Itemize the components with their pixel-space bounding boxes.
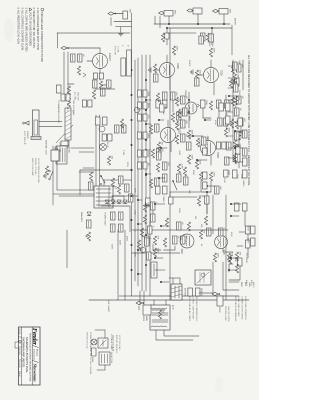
coupling capacitor C3 .047 — [224, 100, 229, 108]
input bus wire B — [167, 27, 232, 29]
bass pot P2 250K — [162, 100, 167, 108]
filter capacitor C24 70MFD — [118, 212, 123, 220]
svg-text:PILOT: PILOT — [106, 142, 108, 148]
top strip wire — [232, 60, 234, 162]
bus wire y113 — [145, 55, 147, 291]
volume pot P3 1MEG — [242, 170, 247, 178]
wire bus to V3 — [166, 28, 168, 45]
res R67 — [196, 138, 199, 147]
svg-text:215V: 215V — [126, 162, 128, 167]
J5 gnd wire — [120, 27, 122, 33]
svg-text:1M: 1M — [225, 112, 227, 115]
res R57 — [149, 179, 152, 188]
svg-text:BASS: BASS — [147, 103, 150, 109]
wire stage to PI — [206, 192, 208, 214]
tube V3 7025 vibrato — [160, 63, 175, 78]
svg-text:(0 TO 150 V A.C.: (0 TO 150 V A.C. — [118, 335, 121, 351]
svg-text:GND SW: GND SW — [77, 92, 79, 100]
speed pot P6 — [195, 288, 200, 296]
cap CV5 — [176, 174, 181, 182]
footswitch assembly box — [33, 110, 40, 138]
jack S2 arrow — [136, 301, 142, 304]
svg-text:SPEED: SPEED — [200, 288, 202, 296]
footswitch inner box — [34, 120, 38, 135]
resistor R5 68K — [123, 11, 128, 19]
standby capacitor C28 — [118, 176, 123, 184]
capacitor C8 — [226, 142, 231, 150]
capacitor C5 coupling — [238, 118, 243, 126]
svg-text:6800: 6800 — [147, 203, 149, 209]
paper smudge 1 — [4, 18, 14, 42]
export wires — [104, 330, 106, 338]
bottom rect B1 — [66, 94, 70, 101]
capacitor C7 — [217, 118, 222, 126]
B+ wire H1 — [124, 230, 126, 300]
ground V1 cathode — [192, 70, 194, 75]
pot PS3 — [225, 116, 230, 124]
res R65 — [235, 144, 238, 153]
AC plug body — [51, 150, 59, 161]
capacitor C17 — [183, 177, 188, 185]
wire x170 long — [95, 169, 132, 171]
logo slash 1 — [33, 346, 39, 348]
AC cord wires — [56, 161, 58, 190]
resistor R38 — [99, 81, 102, 90]
cap box PC1 — [108, 134, 112, 141]
B+ wire H2 — [117, 230, 119, 300]
svg-text:Showman: Showman — [33, 364, 38, 383]
cap C41 — [144, 236, 149, 244]
res R56 — [151, 149, 154, 158]
svg-text:250K: 250K — [205, 100, 207, 106]
pot PS2 — [219, 103, 224, 111]
plate wire upper — [247, 234, 249, 240]
cap C44 — [242, 130, 247, 138]
copyright circle — [19, 341, 22, 344]
PI long wire B — [132, 229, 228, 231]
res R43 — [89, 172, 92, 181]
resistor R28 100K — [213, 253, 216, 262]
capacitor C11 cathode — [153, 74, 158, 82]
resistor R8 1500 cathode — [195, 70, 198, 79]
choke coil CH2 — [56, 146, 67, 164]
vertical connector wires band — [229, 95, 237, 97]
capacitor C34 — [92, 80, 97, 88]
res RV1 — [175, 97, 178, 106]
resistor R25 — [197, 197, 200, 206]
svg-text:3. ALL CAPS IN MFD UNLESS NOTE: 3. ALL CAPS IN MFD UNLESS NOTED — [25, 8, 28, 52]
svg-text:VOLTS ON LINE GROUNDED: VOLTS ON LINE GROUNDED — [29, 12, 32, 46]
cap C47 — [154, 124, 159, 132]
svg-text:USE ONLY WITH: USE ONLY WITH — [227, 306, 229, 322]
junction dots on bus — [131, 69, 133, 71]
capacitor C6 — [223, 118, 228, 126]
panel pot PP1 — [143, 90, 147, 97]
resistor R30 — [187, 222, 190, 231]
resistor R15 220K mix — [199, 172, 202, 181]
optoisolator roach — [195, 270, 211, 285]
svg-text:1 MEG: 1 MEG — [162, 196, 164, 203]
heater wires down — [83, 167, 94, 169]
wire trem net — [180, 236, 182, 240]
cap C56 — [234, 108, 239, 116]
tone bar rect 1 — [127, 50, 132, 76]
supply wires — [123, 196, 125, 200]
ground switch — [50, 171, 53, 178]
res R63 — [234, 96, 237, 105]
rail segment extra — [119, 295, 132, 297]
svg-text:HUM BAL. 115V: HUM BAL. 115V — [45, 140, 48, 155]
rectifier boxes RB1 — [102, 117, 107, 125]
jack J2 wire — [197, 14, 199, 24]
heater resistor R40 — [45, 166, 48, 175]
res RV2 — [177, 109, 180, 118]
svg-text:PRONG - 117 V.A.C.: PRONG - 117 V.A.C. — [34, 158, 37, 176]
title strip cells — [19, 336, 22, 338]
svg-text:TO HEATERS 6.3V A.C.: TO HEATERS 6.3V A.C. — [57, 100, 60, 124]
svg-text:INT.: INT. — [147, 163, 149, 167]
cap C58 — [235, 154, 240, 162]
trem osc extra res R51 — [92, 90, 95, 99]
resistor R9 — [209, 101, 212, 110]
dropping resistor R36 — [67, 98, 70, 107]
svg-text:410V: 410V — [247, 238, 249, 244]
bottom rect B2 — [61, 94, 65, 101]
cap CV3 — [180, 120, 185, 128]
svg-text:250K: 250K — [164, 104, 166, 110]
svg-text:465V: 465V — [126, 236, 128, 242]
svg-text:NOTICE: NOTICE — [18, 349, 20, 356]
svg-text:A-10: A-10 — [18, 373, 21, 377]
svg-text:7025: 7025 — [180, 249, 182, 255]
cap C59 — [180, 134, 185, 142]
resistor R11 slope 100K — [224, 128, 227, 137]
resistor R22 — [187, 155, 190, 164]
svg-text:100K: 100K — [134, 210, 136, 215]
cap CV4 — [156, 152, 161, 160]
wire x196 below PT — [59, 195, 94, 197]
driver transformer leads — [179, 278, 181, 284]
resistor R14 220K mix — [209, 172, 212, 181]
cap CU1 — [144, 238, 149, 246]
res RU1 — [137, 240, 140, 249]
logo slash 2 — [33, 361, 39, 363]
svg-text:INST.: INST. — [174, 10, 176, 15]
mid rect M2 — [82, 100, 86, 107]
input jack J3 vibrato 1 — [159, 11, 165, 14]
svg-text:250PF: 250PF — [188, 60, 190, 67]
svg-text:SHOWMAN AMP (AB763): SHOWMAN AMP (AB763) — [22, 337, 26, 367]
svg-text:VIB. FOOT SW.: VIB. FOOT SW. — [72, 100, 74, 116]
res R52 — [231, 97, 234, 106]
wire x89 trem — [95, 88, 115, 90]
res R47 — [153, 236, 156, 245]
res R66 — [175, 135, 178, 144]
svg-text:410V: 410V — [230, 232, 232, 237]
input bus wire A — [154, 23, 230, 25]
box PB1 — [146, 198, 150, 205]
wire supply e1 — [80, 169, 95, 171]
svg-text:TREB: TREB — [147, 133, 149, 139]
tone bar rect 2 — [121, 58, 126, 76]
AC plug prongs — [56, 146, 58, 150]
title strip divider — [20, 327, 22, 385]
resistor R20 — [156, 93, 159, 102]
cap C43 — [236, 96, 241, 104]
capacitor C12 — [170, 92, 175, 100]
OT secondary wires — [164, 330, 199, 336]
svg-text:70 MFD 450V: 70 MFD 450V — [104, 212, 106, 226]
PI long wire A — [225, 195, 227, 300]
cap C37 — [88, 182, 93, 190]
svg-text:Instruments: Instruments — [33, 349, 36, 360]
tube V7 12AX7 trem osc — [93, 54, 108, 69]
svg-text:1 MEG: 1 MEG — [242, 180, 244, 187]
capacitor C19 PI — [218, 228, 223, 236]
svg-text:VOLTAGE CHART: VOLTAGE CHART — [110, 334, 113, 351]
svg-text:160V: 160V — [208, 42, 210, 47]
cap C35 — [121, 125, 126, 133]
resistor R27 82K — [227, 253, 230, 262]
svg-text:100K: 100K — [157, 248, 159, 254]
primary feed wire B — [95, 115, 97, 186]
capacitor C15 — [162, 162, 167, 170]
top strip drops — [228, 65, 233, 67]
capacitor C4 — [216, 100, 221, 108]
resistor R10 — [230, 119, 233, 128]
bright switch SW3 — [173, 181, 177, 190]
svg-text:CIRCLED LEAD CONNECTIONS TO PC: CIRCLED LEAD CONNECTIONS TO PC BD — [40, 12, 43, 62]
resistor R16 — [195, 160, 198, 169]
capacitor C13 — [162, 92, 167, 100]
bias diode D5 — [87, 212, 91, 216]
svg-text:470K: 470K — [237, 74, 239, 80]
svg-text:PRINTED IN U.S.A.: PRINTED IN U.S.A. — [86, 332, 89, 349]
cap CS2 — [128, 194, 133, 202]
svg-text:SPKR JACKS IN PARALLEL: SPKR JACKS IN PARALLEL — [234, 296, 237, 322]
svg-text:Fender: Fender — [31, 328, 38, 346]
res R64 — [235, 120, 238, 129]
cap C46 — [176, 112, 181, 120]
svg-text:6.3 V.A.C.: 6.3 V.A.C. — [66, 103, 69, 112]
resistor R13 — [233, 155, 236, 164]
bus wire y117 — [141, 55, 143, 291]
resistor R18 100K plate — [172, 46, 175, 55]
wire pres — [152, 244, 154, 250]
cap C52 — [199, 36, 204, 44]
panel pot PP2 — [143, 102, 147, 109]
svg-text:SCHEMATIC 85 WATTS DUAL: SCHEMATIC 85 WATTS DUAL — [25, 337, 29, 373]
title block frame — [19, 327, 41, 385]
footswitch dark bar — [31, 137, 41, 140]
resistor R7 100K plate — [209, 48, 212, 57]
rectifier diode D3 — [111, 200, 115, 204]
svg-text:CG 5-64: CG 5-64 — [18, 361, 20, 367]
filter capacitor C25 70MFD — [110, 212, 115, 220]
box single — [238, 118, 243, 126]
pot P9 — [242, 158, 247, 166]
pot arrow P8 — [83, 73, 86, 77]
output tube bias wires — [225, 251, 233, 253]
svg-text:100K: 100K — [217, 253, 219, 259]
res RV3 — [175, 121, 178, 130]
svg-text:4.7M: 4.7M — [181, 164, 183, 169]
wire pi1 — [152, 210, 154, 214]
svg-text:BRIGHT: BRIGHT — [234, 18, 236, 26]
input jack J2 normal 2 — [187, 9, 193, 12]
svg-text:.0047: .0047 — [178, 150, 180, 156]
panel pot PP6 — [143, 162, 147, 169]
cap C38 — [150, 202, 155, 210]
resistor R6 1MEG — [206, 33, 209, 42]
box near J3 — [165, 33, 169, 39]
wire PI outputs — [223, 262, 239, 290]
svg-text:100K: 100K — [176, 46, 178, 52]
svg-text:470K: 470K — [223, 178, 225, 183]
tube V6 tremolo — [180, 234, 194, 248]
wire y89 across — [169, 28, 171, 300]
svg-text:O.T.: O.T. — [171, 305, 175, 310]
resistor R12 — [233, 140, 236, 149]
svg-text:FOR 2 OHM OPERATION: FOR 2 OHM OPERATION — [244, 296, 247, 320]
svg-text:410V: 410V — [247, 226, 249, 232]
box MC2 — [216, 142, 220, 149]
bias capacitor C29 — [86, 220, 91, 228]
primary to cord verticals — [57, 189, 94, 191]
resistor R17 1MEG — [161, 33, 164, 42]
capacitor C18 — [204, 196, 209, 204]
svg-text:SPKR: SPKR — [142, 316, 144, 322]
svg-text:5H: 5H — [72, 110, 74, 113]
svg-text:V 1.6: V 1.6 — [211, 42, 213, 46]
res R45 — [143, 215, 146, 224]
svg-text:50/60 CYCLE 2 AMP: 50/60 CYCLE 2 AMP — [31, 158, 34, 176]
supply feed wires down — [71, 147, 94, 149]
svg-text:325V: 325V — [111, 244, 113, 250]
wire x230 y192 — [66, 230, 68, 268]
electrolytic cap box CE1 — [151, 262, 157, 278]
ground at J5 — [118, 33, 123, 35]
main speaker jack S2 — [143, 305, 151, 315]
dropping resistor R35 — [67, 86, 70, 95]
OT primary wires — [165, 300, 167, 305]
svg-text:DO NOT REMOVE GROUND: DO NOT REMOVE GROUND — [37, 158, 39, 184]
pilot lamp PL1 — [91, 339, 97, 345]
svg-text:OUTPUT - USE PROPER: OUTPUT - USE PROPER — [192, 296, 194, 320]
resistor R37 — [77, 66, 80, 75]
res R61 — [204, 216, 207, 225]
res R42 — [120, 119, 123, 128]
PI long wire C — [132, 252, 180, 254]
footswitch jack arrow — [25, 121, 29, 125]
screen res R49 — [235, 264, 238, 273]
bus wire y121 — [137, 58, 139, 286]
svg-text:330K: 330K — [192, 170, 194, 175]
rectifier diode D4 — [105, 200, 109, 204]
svg-text:7025: 7025 — [220, 70, 224, 76]
capacitor C23 trem — [176, 222, 181, 230]
standby switch SW1 — [101, 176, 105, 183]
pilot lamp PL1 — [100, 144, 107, 151]
capacitor C31 .02 — [77, 54, 82, 62]
terminal box TB3 — [245, 240, 250, 248]
rectifier circle — [99, 126, 105, 132]
wire x196 above — [126, 195, 138, 197]
resistor R29 trem — [163, 238, 166, 247]
svg-text:TREB: TREB — [147, 91, 149, 97]
bus wire y124 — [134, 60, 136, 281]
wire top edge right — [231, 25, 233, 55]
jack J1 body — [219, 9, 228, 15]
PI upper boxes — [250, 226, 255, 234]
cap box C30 — [56, 85, 61, 93]
bus wire y109 — [149, 55, 151, 296]
terminal box TB4 — [237, 258, 242, 266]
treble pot P4 — [159, 104, 164, 112]
rectifier diode D1 — [123, 200, 127, 204]
capacitor C1 — [200, 33, 205, 41]
footswitch wires up — [39, 121, 62, 123]
res R55 — [149, 125, 152, 134]
grid res R50 — [228, 255, 231, 264]
jack J3 wire — [168, 16, 170, 24]
cap C40 — [147, 226, 152, 234]
tube V4 7025 second — [161, 128, 176, 143]
capacitor C21 trem — [180, 236, 185, 244]
fuse F1 — [92, 348, 96, 356]
panel pot PP5 — [143, 150, 147, 157]
cap C48 — [156, 148, 161, 156]
svg-text:2.2M: 2.2M — [122, 150, 124, 155]
svg-text:POWER SW. STANDBY SW. 117 V.A.: POWER SW. STANDBY SW. 117 V.A.C. 2A FUSE — [89, 332, 92, 375]
diagonal wire — [56, 125, 73, 143]
svg-text:SELECTOR: SELECTOR — [110, 352, 112, 364]
svg-text:THIS JACK CARRIES FULL: THIS JACK CARRIES FULL — [195, 296, 198, 322]
svg-text:PROPER LOAD: PROPER LOAD — [224, 306, 227, 321]
PT lead wires — [113, 195, 126, 197]
resistor R19 cathode — [153, 64, 156, 73]
filter capacitor C26 — [118, 224, 123, 232]
PI wire D — [212, 195, 214, 234]
svg-text:440V: 440V — [119, 240, 121, 246]
wire x33 to jack — [57, 33, 59, 48]
ground V3 cathode — [150, 68, 152, 73]
input jack J5 vibrato 2 — [108, 12, 114, 15]
svg-text:250K: 250K — [225, 125, 227, 130]
osc box OB2 — [93, 73, 97, 79]
tube V2A 7025 — [201, 141, 216, 156]
svg-text:MAIN: MAIN — [145, 316, 148, 321]
svg-text:VOL: VOL — [147, 115, 149, 119]
treble pot P1 250K — [200, 100, 205, 108]
box PB2 — [169, 197, 173, 204]
capacitor C9 — [224, 157, 229, 165]
rectifier diode D2 — [117, 200, 121, 204]
box E1 — [224, 170, 228, 177]
svg-text:ALL VOLTAGES MEASURED TO GROUN: ALL VOLTAGES MEASURED TO GROUND WITH MET… — [247, 55, 250, 186]
svg-text:GRN: GRN — [248, 282, 250, 287]
title sub box — [15, 342, 19, 348]
svg-text:100K: 100K — [199, 160, 201, 166]
svg-text:220K: 220K — [213, 172, 215, 178]
svg-text:BLU: BLU — [244, 282, 246, 287]
svg-text:PR-226: PR-226 — [18, 329, 20, 335]
pot PS1 — [225, 103, 230, 111]
cap C36 — [114, 125, 119, 133]
res RV4 — [157, 142, 160, 151]
svg-text:220K: 220K — [134, 252, 136, 257]
svg-text:4. ALL CONTROLS COUNTER CLKW.: 4. ALL CONTROLS COUNTER CLKW. — [21, 8, 24, 51]
